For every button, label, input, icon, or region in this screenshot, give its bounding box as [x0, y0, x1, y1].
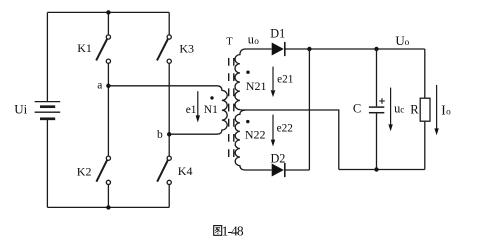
resistor R branch [420, 49, 430, 170]
svg-text:o: o [405, 38, 410, 48]
wire battery bottom lead [46, 120, 48, 207]
arrow e22 [271, 115, 275, 147]
svg-text:Ui: Ui [14, 101, 27, 116]
node b [167, 132, 171, 136]
svg-text:e21: e21 [277, 74, 293, 86]
wire K2 bottom [107, 185, 109, 208]
svg-text:u: u [248, 33, 254, 47]
wire bottom output rail [339, 169, 425, 171]
svg-text:D1: D1 [270, 26, 285, 40]
svg-text:a: a [97, 79, 102, 91]
diode D2 [272, 163, 285, 177]
battery Ui plates [35, 102, 61, 119]
wire node a to transformer primary + winding N1 [108, 86, 227, 134]
switch K4 [157, 156, 171, 184]
node junction (capacitor bottom) [374, 167, 378, 171]
arrow Io [434, 85, 438, 135]
svg-text:K1: K1 [77, 41, 92, 55]
wire K1 branch top [107, 12, 109, 35]
wire bottom-left rail [47, 206, 169, 208]
svg-text:N22: N22 [245, 128, 266, 142]
transformer core dashed lines [229, 58, 234, 161]
svg-text:e22: e22 [277, 123, 294, 135]
svg-text:K3: K3 [179, 41, 194, 55]
svg-text:N21: N21 [246, 79, 267, 93]
svg-text:o: o [254, 37, 259, 47]
caption glyph 图 [214, 226, 222, 236]
arrow uc [388, 88, 392, 132]
winding N21 with top lead [235, 49, 272, 110]
N1 polarity dot [210, 96, 213, 99]
svg-text:K2: K2 [77, 164, 92, 178]
node junction (capacitor top) [374, 47, 378, 51]
svg-text:c: c [400, 106, 404, 116]
node junction (D2 riser at top rail) [307, 47, 311, 51]
node junction top (K1 branch) [106, 10, 110, 14]
winding N22 with bottom lead [235, 110, 271, 170]
svg-text:T: T [226, 37, 233, 48]
wire top output rail [285, 48, 425, 50]
diode D1 [272, 42, 285, 56]
svg-text:C: C [353, 102, 361, 116]
wire top-left rail [47, 11, 169, 13]
svg-text:o: o [446, 107, 451, 117]
svg-text:e1: e1 [186, 104, 197, 116]
arrow e21 [271, 67, 276, 98]
svg-text:N1: N1 [204, 104, 218, 116]
switch K3 [157, 35, 171, 63]
wire D2 cathode to riser [285, 169, 310, 171]
plus sign for capacitor [379, 98, 385, 104]
svg-text:b: b [157, 129, 163, 141]
svg-text:K4: K4 [178, 164, 193, 178]
node a [106, 84, 110, 88]
svg-text:1-48: 1-48 [222, 223, 244, 238]
arrow e1 [196, 91, 200, 122]
wire D2 cathode riser [308, 49, 310, 170]
N21 polarity dot [246, 71, 249, 74]
wire K3 to K4 (through node b) [168, 63, 170, 156]
capacitor C [369, 49, 384, 170]
wire K3 branch top [168, 12, 170, 35]
switch K1 [96, 35, 110, 63]
wire battery top lead [46, 12, 48, 101]
N22 polarity dot [246, 120, 249, 123]
svg-text:R: R [410, 103, 419, 117]
node junction bottom (K2 branch) [106, 205, 110, 209]
svg-text:D2: D2 [271, 152, 286, 166]
wire K1 to K2 (through node a) [107, 63, 109, 156]
wire center tap lead [246, 110, 339, 170]
wire K4 bottom [168, 185, 170, 208]
switch K2 [96, 156, 110, 184]
